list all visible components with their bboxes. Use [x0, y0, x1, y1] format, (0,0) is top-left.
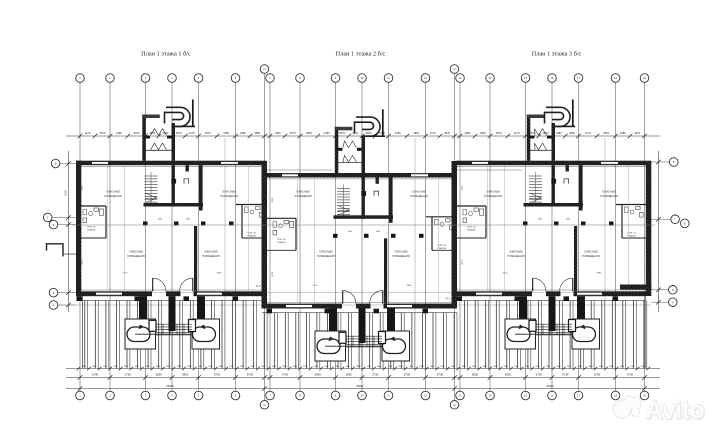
axis A horizontal line across plan: [58, 304, 651, 306]
svg-text:47.9: 47.9: [256, 286, 261, 288]
parking top edge line middle section: [262, 312, 457, 314]
svg-text:5830: 5830: [315, 373, 322, 377]
svg-text:КЛАДОВ.: КЛАДОВ.: [467, 229, 476, 232]
svg-text:6470: 6470: [313, 285, 319, 287]
block 3 stair core far wall: [579, 165, 583, 210]
junction wall between block 2 and 3: [452, 161, 458, 309]
block 3 ramp loop right: [573, 327, 596, 342]
svg-text:3970: 3970: [290, 131, 296, 135]
junction grid axis lowered bottom circle: [260, 401, 269, 410]
junction grid axis line x=264.5: [264, 74, 266, 401]
grid axis 16 vertical line: [551, 83, 553, 392]
svg-text:3730: 3730: [125, 373, 132, 377]
junction grid axis line x=454.5: [454, 74, 456, 401]
block 1 parking edge piers: [77, 296, 83, 301]
svg-text:ОФИСНЫЕ: ОФИСНЫЕ: [222, 190, 236, 194]
svg-text:1480: 1480: [451, 366, 455, 368]
block 3 staircase flight with treads: [529, 175, 542, 177]
block 3 canopy support post: [572, 100, 574, 127]
svg-text:1480: 1480: [275, 131, 281, 135]
svg-text:3220: 3220: [82, 185, 84, 191]
svg-text:1480: 1480: [219, 366, 223, 368]
block 2 canopy support post: [382, 109, 384, 136]
svg-text:1480: 1480: [493, 366, 497, 368]
svg-text:ПОМ. УБ.: ПОМ. УБ.: [87, 227, 96, 229]
grid axis 19 bottom circle: [640, 391, 649, 400]
svg-text:ОФИСНЫЕ: ОФИСНЫЕ: [584, 250, 598, 254]
block 1 stair core far wall: [199, 165, 203, 210]
axis G right circle: [671, 215, 680, 224]
block 2 ramp shaft wall right: [387, 309, 395, 332]
block 2 entrance bay left wall: [335, 127, 339, 173]
svg-text:6070: 6070: [82, 259, 84, 265]
svg-text:1480: 1480: [588, 366, 592, 368]
junction wall between block 1 and 2: [262, 161, 268, 309]
grid axis 7 top circle: [266, 74, 275, 83]
svg-text:56930: 56930: [356, 384, 364, 388]
block 1 staircase flight with treads: [145, 175, 158, 177]
svg-text:1480: 1480: [504, 366, 508, 368]
svg-text:1480: 1480: [250, 366, 254, 368]
axis A right leader: [651, 301, 669, 303]
grid axis 11 bottom circle: [384, 391, 393, 400]
svg-text:3730: 3730: [282, 373, 289, 377]
grid axis 4 vertical line: [171, 83, 173, 392]
grid axis 18 vertical line: [615, 83, 617, 392]
svg-text:ПОМ. УБ.: ПОМ. УБ.: [438, 245, 447, 247]
svg-text:1480: 1480: [324, 131, 330, 135]
svg-text:1480: 1480: [388, 366, 392, 368]
block 3 stair wall dark pier: [551, 179, 556, 184]
svg-text:План 1 этажа 2 б/с: План 1 этажа 2 б/с: [336, 51, 386, 58]
svg-text:2570: 2570: [603, 131, 609, 135]
axis A right circle: [669, 298, 678, 307]
svg-text:1480: 1480: [113, 366, 117, 368]
block 2 exterior top wall: [266, 173, 456, 178]
grid axis 12 vertical line: [425, 83, 427, 392]
axis A left leader: [58, 304, 76, 306]
svg-text:5730: 5730: [247, 373, 254, 377]
grid axis 4 bottom circle: [168, 391, 177, 400]
svg-text:47.9: 47.9: [446, 298, 451, 300]
axis G left leader: [52, 217, 76, 219]
grid axis 1 vertical line: [79, 83, 81, 392]
svg-text:ПОМЕЩЕНИЯ: ПОМЕЩЕНИЯ: [220, 194, 238, 198]
block 3 duct fixture: [564, 179, 569, 184]
svg-text:А: А: [672, 300, 674, 304]
svg-text:1480: 1480: [430, 366, 434, 368]
block 1 canopy arc over entrance: [166, 107, 190, 126]
svg-text:1480: 1480: [472, 366, 476, 368]
svg-text:1480: 1480: [82, 366, 86, 368]
svg-text:1170: 1170: [85, 131, 91, 135]
grid axis 16 bottom circle: [548, 391, 557, 400]
svg-text:5730: 5730: [562, 373, 569, 377]
svg-text:1480: 1480: [630, 366, 634, 368]
grid axis 9 top circle: [331, 74, 340, 83]
block 3 ramp loop left: [507, 327, 530, 342]
block 1 entrance double door lower: [151, 143, 167, 150]
block 3 entrance bay top wall with steps: [527, 115, 545, 119]
grid axis 14 bottom circle: [486, 391, 495, 400]
junction grid axis lowered bottom circle: [450, 401, 459, 410]
svg-text:3220: 3220: [462, 185, 464, 191]
svg-text:1480: 1480: [578, 366, 582, 368]
bottom stall dimension chain: [66, 368, 660, 370]
block 3 right WC fixtures: [625, 207, 629, 212]
svg-text:1480: 1480: [599, 366, 603, 368]
svg-text:1480: 1480: [556, 131, 562, 135]
block 1 right WC fixtures: [245, 207, 249, 212]
grid axis 3 vertical line: [145, 83, 147, 392]
block 2 left WC bottom wall: [266, 249, 296, 251]
svg-text:ПОМЕЩЕНИЯ: ПОМЕЩЕНИЯ: [104, 194, 122, 198]
block 2 entrance bay inner wall: [337, 148, 343, 151]
block 2 exterior bottom wall: [266, 304, 342, 309]
svg-text:1480: 1480: [229, 366, 233, 368]
svg-text:ОФИСНЫЕ: ОФИСНЫЕ: [204, 250, 218, 254]
parking stall hatch lines: [84, 300, 86, 368]
svg-text:2570: 2570: [100, 131, 106, 135]
svg-text:КЛАДОВ.: КЛАДОВ.: [248, 235, 257, 238]
block 1 dimension witness line a: [224, 138, 226, 368]
block 1 dimension witness line c: [124, 166, 126, 290]
svg-text:5830: 5830: [472, 373, 479, 377]
block 2 corridor columns on axis: [333, 234, 338, 238]
block 2 stair core bottom wall: [334, 215, 394, 219]
junction 2 step face line: [452, 169, 522, 171]
block 2 left WC side wall: [295, 218, 297, 250]
svg-text:ПОМЕЩЕНИЯ: ПОМЕЩЕНИЯ: [202, 254, 220, 258]
grid axis 15 bottom circle: [521, 391, 530, 400]
grid axis 10 vertical line: [361, 83, 363, 392]
block 3 left WC bottom wall: [456, 237, 486, 239]
block 3 bottom door right leaf and swing: [572, 278, 574, 291]
grid axis 18 top circle: [611, 74, 620, 83]
block 1 corridor columns on axis: [143, 222, 148, 226]
svg-text:ОФИСНЫЕ: ОФИСНЫЕ: [602, 190, 616, 194]
svg-text:КЛАДОВ.: КЛАДОВ.: [87, 229, 96, 232]
svg-text:2570: 2570: [176, 131, 182, 135]
svg-text:1480: 1480: [261, 366, 265, 368]
block 3 right WC bottom wall: [622, 237, 646, 239]
svg-text:1480: 1480: [367, 366, 371, 368]
svg-text:1480: 1480: [134, 366, 138, 368]
block 3 elevator shaft middle wall: [566, 165, 569, 171]
axis B left leader: [58, 292, 76, 294]
svg-text:1170: 1170: [585, 131, 591, 135]
grid axis 4 top circle: [168, 74, 177, 83]
grid axis 18 bottom circle: [611, 391, 620, 400]
right vertical dimension line: [658, 151, 660, 312]
block 3 left WC side wall: [485, 206, 487, 238]
svg-text:9150: 9150: [65, 190, 68, 196]
grid axis 9 vertical line: [335, 83, 337, 392]
svg-text:1480: 1480: [620, 366, 624, 368]
building left end wall: [76, 161, 81, 297]
block 1 ramp bridge between boxes: [156, 323, 193, 325]
block 1 entrance double door upper: [151, 129, 167, 136]
svg-text:ПОМЕЩЕНИЯ: ПОМЕЩЕНИЯ: [410, 194, 428, 198]
block 2 entrance double door upper: [343, 141, 357, 148]
svg-text:А: А: [53, 303, 55, 307]
axis A left circle: [49, 301, 58, 310]
parking left boundary wall line: [82, 296, 84, 368]
grid axis 19 top circle: [640, 74, 649, 83]
block 2 dimension witness line c: [314, 178, 316, 302]
block 2 left WC fixtures: [273, 222, 277, 227]
block 3 bottom door left leaf and swing: [532, 278, 534, 291]
svg-text:1480: 1480: [409, 366, 413, 368]
block 1 stair core bottom wall: [144, 203, 204, 207]
grid axis 3 top circle: [141, 74, 150, 83]
grid axis 13 top circle: [456, 74, 465, 83]
svg-text:Б: Б: [672, 288, 674, 292]
block 2 entrance double door lower: [343, 155, 357, 162]
svg-text:1480: 1480: [223, 131, 229, 135]
axis B1 left leader: [58, 224, 76, 226]
svg-text:Б: Б: [53, 291, 55, 295]
svg-text:1480: 1480: [535, 366, 539, 368]
block 2 entrance bay top wall with steps: [335, 127, 353, 131]
building right end wall: [646, 161, 652, 296]
block 1 left WC bottom wall: [76, 237, 106, 239]
block 2 right WC bottom wall: [432, 249, 456, 251]
svg-text:1480: 1480: [567, 366, 571, 368]
grid axis 13 bottom circle: [456, 391, 465, 400]
block 1 right WC top wall: [236, 204, 266, 206]
svg-text:ПОМЕЩЕНИЯ: ПОМЕЩЕНИЯ: [127, 254, 145, 258]
svg-text:В: В: [673, 160, 675, 164]
svg-text:1480: 1480: [240, 131, 246, 135]
grid axis 14 top circle: [486, 74, 495, 83]
block 1 stair core right wall: [172, 165, 175, 206]
grid axis 2 bottom circle: [106, 391, 115, 400]
svg-text:1480: 1480: [293, 366, 297, 368]
block 2 entrance bay right wall: [362, 135, 366, 173]
block 3 stair core right wall: [552, 165, 555, 206]
svg-text:ОФИСНЫЕ: ОФИСНЫЕ: [509, 250, 523, 254]
Avito watermark logo and text: [612, 400, 631, 419]
grid axis 6 vertical line: [235, 83, 237, 392]
block 3 left WC top wall: [456, 205, 486, 207]
block 1 canopy support post: [192, 100, 194, 127]
block 1 entrance bay left wall: [142, 115, 146, 161]
block 2 bottom door right leaf and swing: [382, 290, 384, 303]
block 2 bottom door left leaf and swing: [342, 290, 344, 303]
block 3 entrance double door lower: [535, 143, 547, 150]
block 1 exterior top wall: [76, 161, 266, 166]
svg-text:3970: 3970: [634, 131, 640, 135]
svg-text:1480: 1480: [461, 366, 465, 368]
svg-text:1480: 1480: [198, 366, 202, 368]
block 3 exterior bottom wall: [456, 291, 532, 296]
block 3 ramp shaft wall right: [577, 296, 585, 319]
svg-text:1480: 1480: [480, 131, 486, 135]
svg-text:4850: 4850: [306, 131, 312, 135]
svg-text:1480: 1480: [103, 366, 107, 368]
grid axis 2 vertical line: [109, 83, 111, 392]
grid axis 5 vertical line: [198, 83, 200, 392]
svg-text:1480: 1480: [419, 366, 423, 368]
block 1 ramp shaft wall left: [139, 296, 147, 319]
block 3 stair core bottom wall: [524, 203, 584, 207]
axis B1 right circle: [681, 219, 690, 228]
block 3 entrance bay left wall: [527, 115, 531, 161]
block 2 ramp loop right: [383, 339, 406, 354]
junction grid axis raised top circle: [260, 65, 269, 74]
svg-text:ОФИСНЫЕ: ОФИСНЫЕ: [394, 250, 408, 254]
svg-text:КЛАДОВ.: КЛАДОВ.: [277, 241, 286, 244]
svg-text:1480: 1480: [177, 366, 181, 368]
svg-text:4850: 4850: [149, 131, 155, 135]
grid axis 11 vertical line: [388, 83, 390, 392]
block 1 exterior bottom wall: [76, 291, 152, 296]
block 2 dimension witness line a: [414, 138, 416, 368]
svg-text:ОФИСНЫЕ: ОФИСНЫЕ: [486, 190, 500, 194]
svg-text:3730: 3730: [214, 373, 221, 377]
grid axis 17 top circle: [574, 74, 583, 83]
grid axis 3 bottom circle: [141, 391, 150, 400]
block 3 ramp box right: [572, 319, 600, 349]
svg-text:Б: Б: [53, 223, 55, 227]
block 2 lower partition wall: [384, 238, 387, 303]
block 1 entrance bay top wall with steps: [142, 115, 160, 119]
block 2 right WC side wall: [431, 217, 433, 251]
grid axis 17 bottom circle: [574, 391, 583, 400]
block 1 ramp box right pier: [189, 320, 196, 332]
svg-text:1480: 1480: [156, 366, 160, 368]
svg-text:ОФИСНЫЕ: ОФИСНЫЕ: [106, 190, 120, 194]
block 2 ramp shaft wall left: [329, 309, 337, 332]
svg-text:5980: 5980: [217, 273, 223, 275]
block 3 parking edge piers: [457, 296, 463, 301]
bottom grid dimension chain: [66, 377, 660, 379]
block 2 dimension witness line b: [297, 178, 299, 302]
block 2 ramp box right pier: [379, 332, 386, 344]
svg-text:ПОМ. УБ.: ПОМ. УБ.: [467, 227, 476, 229]
svg-text:3220: 3220: [272, 197, 274, 203]
grid axis 19 vertical line: [644, 83, 646, 392]
block 3 dimension witness line a: [604, 138, 606, 368]
block 1 left WC top wall: [76, 205, 106, 207]
svg-text:1480: 1480: [395, 131, 401, 135]
svg-text:1480: 1480: [525, 366, 529, 368]
svg-text:Б: Б: [684, 222, 686, 226]
grid axis 12 bottom circle: [421, 391, 430, 400]
svg-text:1480: 1480: [609, 366, 613, 368]
svg-text:1480: 1480: [145, 366, 149, 368]
svg-text:1480: 1480: [124, 366, 128, 368]
svg-text:1480: 1480: [335, 366, 339, 368]
svg-text:5980: 5980: [407, 285, 413, 287]
svg-text:1480: 1480: [240, 366, 244, 368]
svg-text:56930: 56930: [546, 384, 554, 388]
bottom overall dimension line: [66, 388, 660, 390]
svg-text:4850: 4850: [465, 131, 471, 135]
axis B horizontal line across plan: [58, 292, 651, 294]
block 2 parking edge piers: [267, 309, 273, 314]
svg-text:КЛАДОВ.: КЛАДОВ.: [628, 235, 637, 238]
svg-text:ОФИСНЫЕ: ОФИСНЫЕ: [319, 250, 333, 254]
svg-text:1480: 1480: [116, 131, 122, 135]
grid axis 11 top circle: [384, 74, 393, 83]
left vertical dimension line: [68, 151, 70, 312]
svg-text:1170: 1170: [353, 131, 359, 135]
block 3 dimension witness line c: [504, 166, 506, 290]
block 3 corridor columns on axis: [523, 222, 528, 226]
corridor axis line: [72, 224, 655, 226]
grid axis 1 bottom circle: [76, 391, 85, 400]
block 3 exterior top wall: [456, 161, 646, 166]
grid axis 8 vertical line: [299, 83, 301, 392]
grid axis 16 top circle: [548, 74, 557, 83]
grid axis 10 top circle: [358, 74, 367, 83]
block 1 ramp box left pier: [149, 320, 156, 331]
block 2 ramp box right: [382, 331, 410, 361]
svg-text:2570: 2570: [496, 131, 502, 135]
svg-text:План 1 этажа 3 б/с: План 1 этажа 3 б/с: [532, 51, 582, 58]
grid axis 17 vertical line: [578, 83, 580, 392]
block 1 entrance bay right wall: [172, 123, 176, 161]
grid axis 10 bottom circle: [358, 391, 367, 400]
axis V right circle: [670, 158, 679, 167]
block 1 elevator shaft middle wall: [186, 165, 189, 171]
svg-text:Avito: Avito: [645, 397, 704, 425]
grid axis 8 top circle: [296, 74, 305, 83]
grid axis 13 vertical line: [459, 83, 461, 392]
block 2 ramp loop left: [317, 339, 340, 354]
svg-text:1480: 1480: [272, 366, 276, 368]
grid axis 2 top circle: [106, 74, 115, 83]
svg-text:6070: 6070: [272, 271, 274, 277]
block 2 left WC top wall: [266, 217, 296, 219]
grid axis 8 bottom circle: [296, 391, 305, 400]
grid axis 7 bottom circle: [266, 391, 275, 400]
block 3 left WC fixtures: [463, 210, 467, 215]
axis G right leader: [651, 218, 671, 220]
svg-text:3830: 3830: [182, 373, 189, 377]
block 2 ramp bridge between boxes: [346, 335, 383, 337]
svg-text:3830: 3830: [346, 373, 353, 377]
svg-text:1480: 1480: [641, 366, 645, 368]
block 3 ramp shaft wall left: [519, 296, 527, 319]
block 3 entrance double door upper: [535, 129, 547, 136]
svg-text:ПОМ. УБ.: ПОМ. УБ.: [248, 233, 257, 235]
block 1 ramp shaft wall middle: [169, 296, 176, 331]
svg-text:ОФИСНЫЕ: ОФИСНЫЕ: [129, 250, 143, 254]
axis G left circle: [43, 213, 52, 222]
svg-text:4850: 4850: [413, 131, 419, 135]
svg-text:1480: 1480: [440, 366, 444, 368]
svg-text:ОФИСНЫЕ: ОФИСНЫЕ: [296, 190, 310, 194]
block 3 ramp box left: [505, 319, 536, 349]
svg-text:1480: 1480: [345, 366, 349, 368]
grid axis 5 top circle: [194, 74, 203, 83]
block 2 right WC top wall: [426, 216, 456, 218]
svg-text:1480: 1480: [282, 366, 286, 368]
block 1 bottom door left leaf and swing: [152, 278, 154, 291]
svg-text:6470: 6470: [123, 273, 129, 275]
svg-text:ПОМ. УБ.: ПОМ. УБ.: [628, 233, 637, 235]
svg-text:3830: 3830: [505, 373, 512, 377]
svg-text:3970: 3970: [366, 131, 372, 135]
block 1 entrance bay inner wall: [145, 136, 151, 139]
grid axis 12 top circle: [421, 74, 430, 83]
svg-text:5730: 5730: [594, 373, 601, 377]
svg-text:1480: 1480: [398, 366, 402, 368]
svg-text:5980: 5980: [597, 273, 603, 275]
